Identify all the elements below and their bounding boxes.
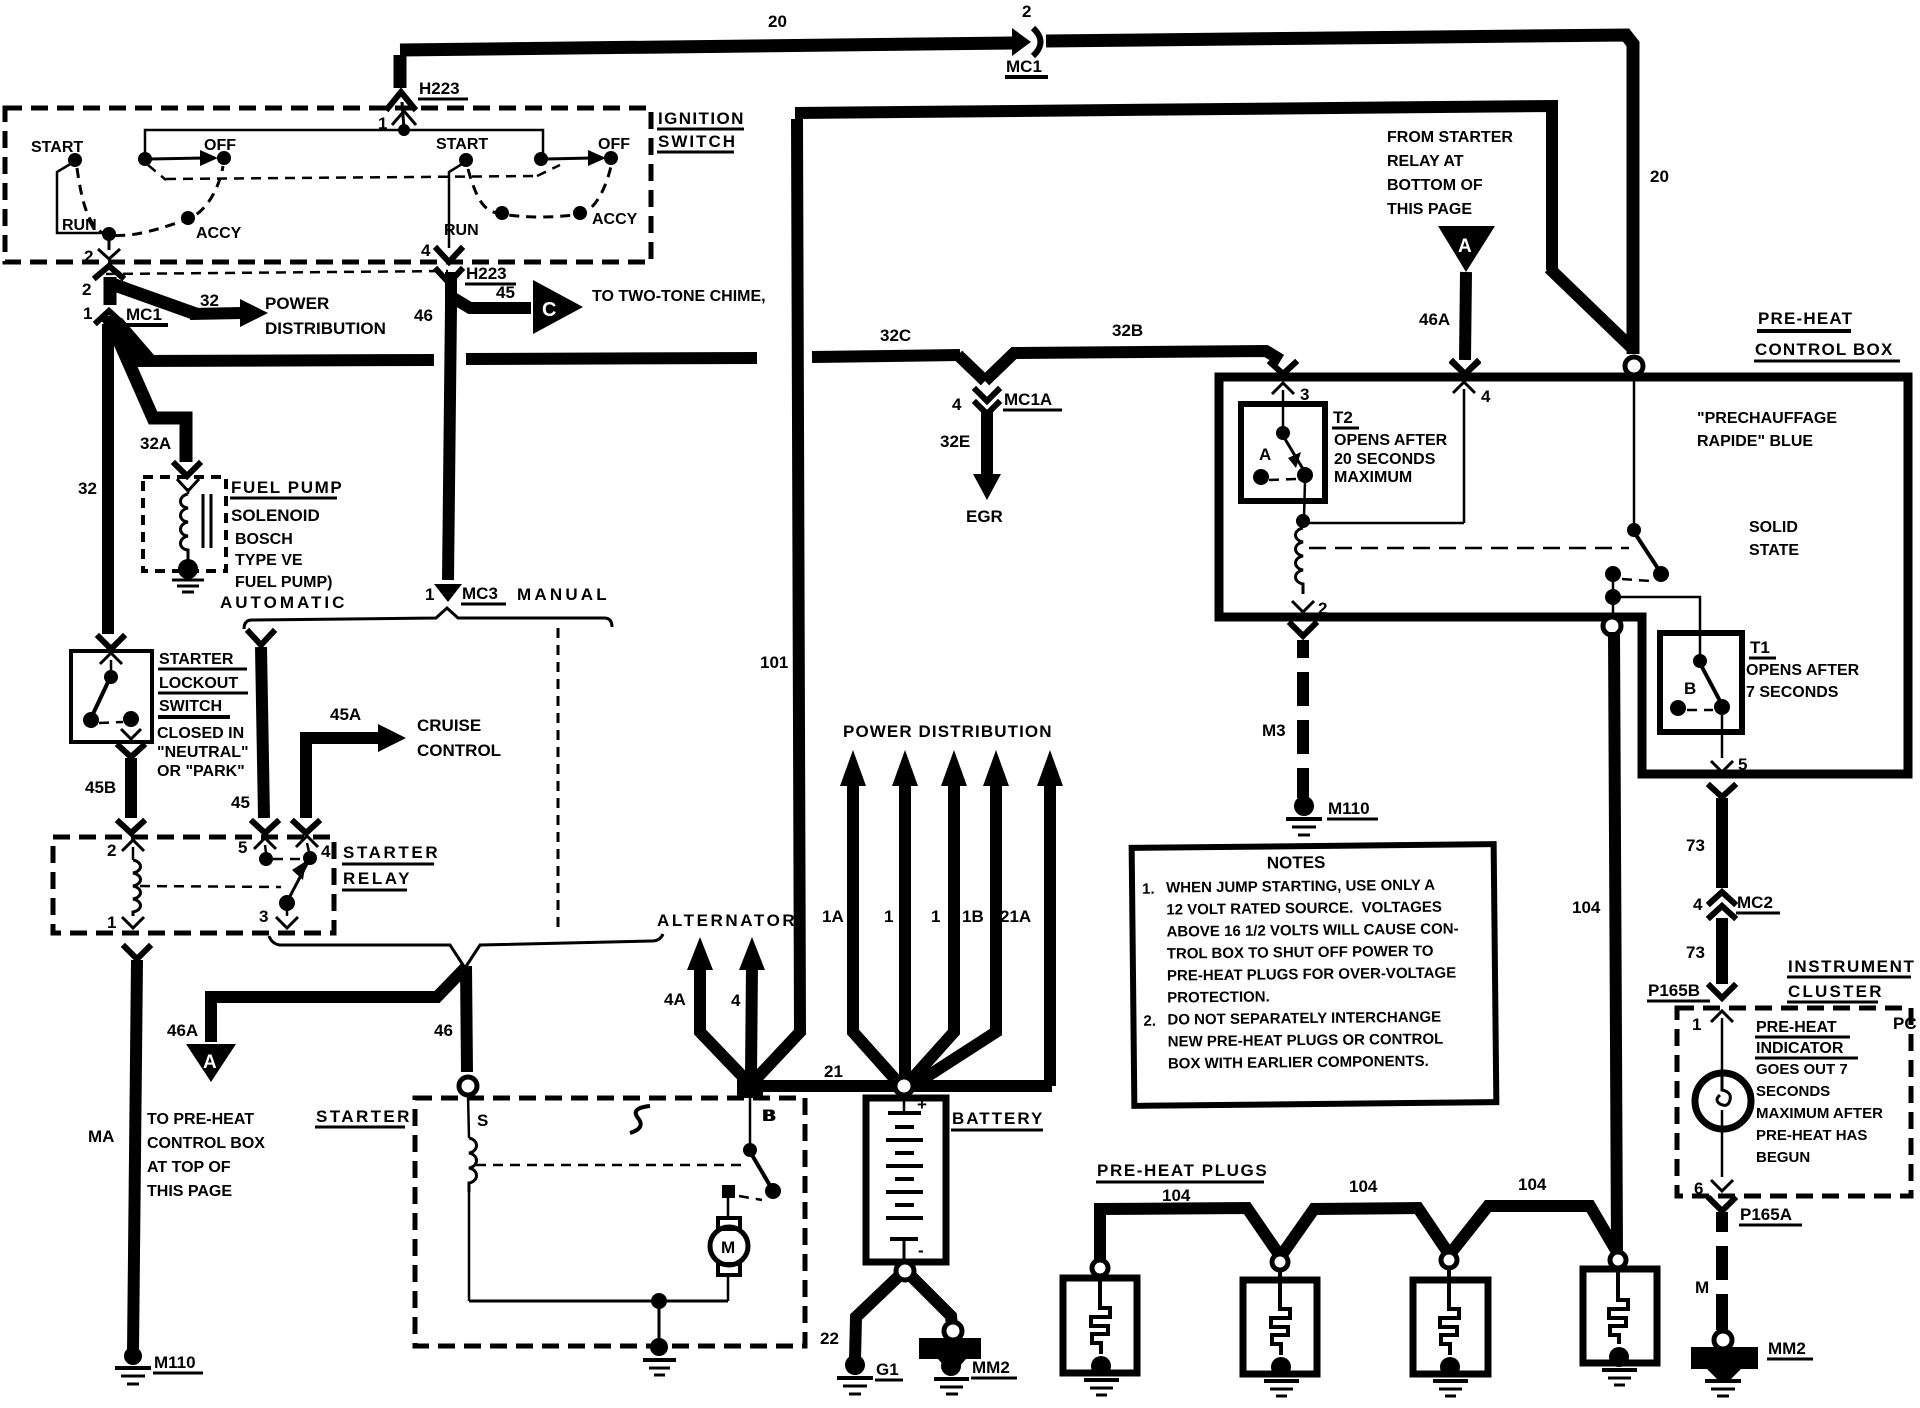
label T2 OPENS AFTER 20 SECONDS MAXIMUM: [1332, 408, 1448, 486]
label STARTER: [315, 1107, 412, 1127]
starter lockout switch box: [71, 651, 152, 742]
power distribution arrow 1 (first): [884, 750, 918, 1078]
svg-text:MA: MA: [88, 1127, 114, 1146]
svg-text:M110: M110: [154, 1353, 196, 1372]
svg-text:45: 45: [496, 283, 515, 302]
label PRE-HEAT INDICATOR: [1755, 1019, 1883, 1166]
arrow into fuel pump: [175, 464, 199, 476]
starter ground junction: [643, 1293, 676, 1375]
terminal 2 arrow (box exit): [98, 249, 120, 259]
starter internal dashed link: [476, 1164, 744, 1167]
svg-text:DISTRIBUTION: DISTRIBUTION: [265, 319, 386, 338]
battery plates: [886, 1095, 927, 1262]
wire: terminal-1 bus inside switch: [145, 130, 543, 155]
svg-text:M110: M110: [1328, 799, 1370, 818]
svg-text:MANUAL: MANUAL: [517, 585, 610, 604]
label MA: [88, 1127, 114, 1146]
svg-text:A: A: [1458, 236, 1472, 257]
svg-text:2: 2: [84, 247, 93, 266]
ignition switch left half: ACCY contact: [181, 211, 242, 242]
svg-text:BOTTOM OF: BOTTOM OF: [1387, 177, 1483, 194]
wire 73: [1686, 786, 1734, 888]
relay switch blade: [273, 859, 308, 911]
label 1 (ignition terminal 1): [378, 114, 387, 133]
svg-text:32C: 32C: [880, 326, 911, 345]
label 45A: [330, 705, 361, 724]
svg-text:ACCY: ACCY: [592, 211, 638, 228]
power distribution arrow 1 (second): [911, 750, 967, 1080]
svg-text:B: B: [1684, 679, 1696, 698]
relay T1 box: [1660, 633, 1742, 732]
svg-text:STARTER: STARTER: [316, 1107, 412, 1126]
label PRE-HEAT PLUGS: [1096, 1161, 1268, 1182]
svg-text:1A: 1A: [822, 907, 844, 926]
svg-text:32B: 32B: [1112, 321, 1143, 340]
label B (starter): [762, 1106, 774, 1125]
relay terminal 1: [107, 913, 144, 932]
svg-text:MAXIMUM AFTER: MAXIMUM AFTER: [1756, 1105, 1883, 1122]
relay terminal 5: [238, 838, 276, 866]
label 2 (ignition terminal 2): [84, 247, 93, 266]
wire 73 lower: [1686, 918, 1734, 998]
svg-text:A: A: [1259, 445, 1271, 464]
T2 output node: [1296, 481, 1464, 528]
svg-text:TYPE VE: TYPE VE: [235, 552, 303, 569]
ignition switch left half: START contact: [31, 139, 104, 233]
wire M3 dashed: [1262, 640, 1303, 798]
svg-text:22: 22: [820, 1329, 839, 1348]
label 45B: [85, 778, 116, 797]
svg-text:RELAY: RELAY: [343, 869, 412, 888]
svg-text:45: 45: [231, 793, 250, 812]
svg-text:POWER DISTRIBUTION: POWER DISTRIBUTION: [843, 722, 1053, 741]
relay dashed link: [140, 886, 281, 887]
svg-text:OFF: OFF: [598, 136, 630, 153]
svg-text:PRE-HEAT PLUGS FOR OVER-VOLTAG: PRE-HEAT PLUGS FOR OVER-VOLTAGE: [1167, 965, 1456, 985]
label POWER DISTRIBUTION (left): [265, 294, 386, 338]
svg-text:2: 2: [1318, 599, 1327, 618]
node B junction: [737, 1072, 776, 1125]
label 4 (ignition terminal 4): [421, 241, 431, 260]
svg-text:MC1: MC1: [126, 305, 162, 324]
alternator arrow 4: [731, 937, 765, 1076]
dashed connector line below ignition box: [106, 271, 448, 274]
svg-text:5: 5: [1738, 755, 1747, 774]
svg-text:SOLID: SOLID: [1749, 519, 1798, 536]
svg-text:B: B: [764, 1106, 776, 1125]
power distribution arrow 1B: [917, 750, 1009, 1083]
svg-text:104: 104: [1162, 1186, 1191, 1205]
solid state input node: [1625, 357, 1643, 537]
starter box: [415, 1098, 805, 1346]
svg-text:RUN: RUN: [444, 222, 479, 239]
pre-heat plug 1: [1063, 1260, 1137, 1395]
ground MM2 (battery): [919, 1322, 1017, 1394]
svg-text:45B: 45B: [85, 778, 116, 797]
svg-text:OPENS AFTER: OPENS AFTER: [1334, 432, 1448, 449]
104 output circle: [1603, 617, 1621, 635]
svg-text:45A: 45A: [330, 705, 361, 724]
svg-text:1: 1: [931, 907, 940, 926]
wire 46 to starter S: [466, 966, 467, 1072]
wire 20 top run: [400, 35, 1633, 354]
relay coil: [133, 860, 141, 916]
ignition switch right half: rotary dashed arc: [468, 166, 611, 217]
svg-text:TO TWO-TONE CHIME,: TO TWO-TONE CHIME,: [592, 288, 766, 305]
connector A triangle (from starter relay): [1438, 226, 1495, 272]
label S: [477, 1111, 488, 1130]
svg-text:MC2: MC2: [1737, 893, 1773, 912]
label FROM STARTER RELAY: [1387, 129, 1513, 218]
relay T2 switch A: [1253, 426, 1313, 485]
wire 46 from ignition: [448, 272, 451, 580]
svg-text:2: 2: [82, 280, 91, 299]
wire 46A into control box: [1419, 272, 1477, 374]
svg-text:DO NOT SEPARATELY INTERCHANGE: DO NOT SEPARATELY INTERCHANGE: [1167, 1009, 1441, 1029]
svg-text:2: 2: [1022, 2, 1031, 21]
svg-text:SWITCH: SWITCH: [159, 698, 222, 715]
starter switch: [722, 1097, 781, 1218]
svg-text:1: 1: [107, 913, 116, 932]
svg-text:START: START: [436, 136, 488, 153]
svg-text:OR "PARK": OR "PARK": [157, 763, 245, 780]
svg-text:BEGUN: BEGUN: [1756, 1149, 1810, 1166]
svg-text:THIS PAGE: THIS PAGE: [1387, 201, 1472, 218]
wire 45 down to relay: [249, 632, 273, 818]
svg-text:BATTERY: BATTERY: [952, 1109, 1044, 1128]
alternator arrow 4A: [664, 937, 746, 1080]
label 32C: [880, 326, 911, 345]
wire 104 from control box: [1572, 632, 1617, 1251]
relay terminal 2: [107, 840, 144, 860]
wire to T1: [1617, 597, 1700, 656]
svg-text:2: 2: [107, 841, 116, 860]
terminal S circle: [459, 1077, 477, 1095]
pre-heat plug 4: [1583, 1252, 1657, 1385]
svg-text:H223: H223: [466, 264, 507, 283]
fuel pump solenoid box: [143, 477, 226, 571]
wire 22 to G1: [820, 1276, 899, 1360]
svg-text:CLOSED IN: CLOSED IN: [157, 725, 244, 742]
connector C triangle to two-tone chime: [533, 280, 766, 334]
svg-text:5: 5: [238, 838, 247, 857]
svg-text:SECONDS: SECONDS: [1756, 1083, 1830, 1100]
svg-text:A: A: [203, 1052, 217, 1073]
label 32A: [140, 434, 171, 453]
label 32: [78, 479, 97, 498]
connector P165A: [1710, 1199, 1802, 1225]
battery top junction: [895, 1077, 913, 1095]
svg-text:20 SECONDS: 20 SECONDS: [1334, 451, 1436, 468]
svg-text:21: 21: [824, 1062, 843, 1081]
svg-text:32E: 32E: [940, 432, 970, 451]
connector MC3: [425, 584, 506, 604]
bus wire 21: [750, 1062, 1052, 1086]
arrow to cruise control: [378, 724, 406, 752]
svg-text:IGNITION: IGNITION: [658, 109, 745, 128]
svg-text:P165B: P165B: [1648, 981, 1700, 1000]
connector MC2: [1693, 892, 1780, 917]
ground M110 (M3): [1286, 796, 1378, 835]
fuel pump solenoid coil: [177, 479, 211, 562]
svg-text:MM2: MM2: [1768, 1339, 1806, 1358]
brace under starter relay: [269, 934, 663, 968]
dashed timing link T2 to switch: [1309, 547, 1629, 550]
battery bottom junction: [896, 1262, 914, 1280]
notes text: [1142, 851, 1460, 1072]
svg-text:MC3: MC3: [462, 584, 498, 603]
svg-text:S: S: [477, 1111, 488, 1130]
svg-text:SWITCH: SWITCH: [658, 132, 737, 151]
svg-text:4: 4: [321, 842, 331, 861]
label 45: [231, 793, 250, 812]
ignition switch right half: START contact: [436, 136, 488, 248]
wire 32E to EGR: [940, 412, 1003, 526]
svg-text:"PRECHAUFFAGE: "PRECHAUFFAGE: [1697, 410, 1837, 427]
svg-text:20: 20: [768, 12, 787, 31]
svg-text:20: 20: [1650, 167, 1669, 186]
svg-text:AT TOP OF: AT TOP OF: [147, 1159, 231, 1176]
svg-text:1.: 1.: [1142, 881, 1155, 898]
svg-text:P165A: P165A: [1740, 1205, 1792, 1224]
label 20 (top): [768, 12, 787, 31]
svg-text:M: M: [721, 1238, 735, 1257]
svg-text:CONTROL BOX: CONTROL BOX: [147, 1135, 265, 1152]
starter solenoid coil: [468, 1095, 477, 1301]
svg-text:C: C: [542, 299, 556, 321]
svg-text:7 SECONDS: 7 SECONDS: [1746, 684, 1839, 701]
starter lockout switch contacts: [83, 653, 141, 739]
relay T2 box: [1241, 404, 1325, 501]
svg-text:FUEL PUMP): FUEL PUMP): [235, 574, 332, 591]
label INSTRUMENT CLUSTER: [1787, 957, 1915, 1002]
svg-text:CLUSTER: CLUSTER: [1788, 982, 1884, 1001]
svg-text:4: 4: [1481, 387, 1491, 406]
svg-text:2.: 2.: [1143, 1013, 1156, 1030]
instrument cluster box: [1677, 1008, 1911, 1196]
connector MC1A: [952, 390, 1062, 414]
solid state switch: [1605, 535, 1669, 615]
svg-text:CRUISE: CRUISE: [417, 716, 481, 735]
pre-heat indicator bulb: [1695, 1073, 1751, 1130]
svg-text:12 VOLT RATED SOURCE. VOLTAGE: 12 VOLT RATED SOURCE. VOLTAGES: [1166, 899, 1442, 919]
relay terminal 3: [259, 907, 298, 928]
svg-text:NOTES: NOTES: [1267, 853, 1326, 873]
label 32B: [1112, 321, 1143, 340]
wire 45B: [119, 746, 143, 818]
ignition switch dashed crossbar: [166, 176, 537, 179]
svg-text:73: 73: [1686, 943, 1705, 962]
svg-text:FUEL PUMP: FUEL PUMP: [231, 478, 343, 497]
label ALTERNATOR: [657, 911, 797, 930]
label BATTERY: [951, 1109, 1044, 1130]
svg-text:TROL BOX TO SHUT OFF POWER TO: TROL BOX TO SHUT OFF POWER TO: [1167, 943, 1434, 963]
svg-text:ABOVE 16 1/2 VOLTS WILL CAUSE: ABOVE 16 1/2 VOLTS WILL CAUSE CON-: [1166, 920, 1458, 940]
arrow into starter lockout switch: [99, 637, 123, 649]
svg-text:RELAY AT: RELAY AT: [1387, 153, 1464, 170]
label PC: [1893, 1014, 1917, 1033]
svg-text:G1: G1: [876, 1360, 899, 1379]
svg-text:46A: 46A: [1419, 310, 1450, 329]
cluster terminal 6: [1694, 1130, 1733, 1198]
starter flexible lead symbol: [630, 1106, 650, 1133]
wire 46A to triangle: [211, 967, 466, 1042]
connector MC1 (below terminal 2): [82, 266, 168, 325]
label CRUISE CONTROL: [417, 716, 501, 760]
svg-text:BOX WITH EARLIER COMPONENTS.: BOX WITH EARLIER COMPONENTS.: [1168, 1053, 1429, 1073]
wire to MM2: [911, 1276, 952, 1326]
label FUEL PUMP SOLENOID: [230, 478, 343, 591]
ground G1: [837, 1355, 903, 1394]
svg-text:RAPIDE" BLUE: RAPIDE" BLUE: [1697, 433, 1813, 450]
wire 101 horizontal run: [754, 106, 1634, 1081]
svg-text:4: 4: [421, 241, 431, 260]
svg-text:PRE-HEAT PLUGS: PRE-HEAT PLUGS: [1097, 1161, 1268, 1180]
terminal 2 arrow: [1291, 599, 1327, 636]
svg-text:4: 4: [731, 991, 741, 1010]
wire 32 power distribution branch: [112, 284, 268, 327]
svg-text:OFF: OFF: [204, 137, 236, 154]
wire MC1 stub: [100, 316, 160, 368]
label STARTER LOCKOUT SWITCH: [157, 651, 249, 780]
svg-text:LOCKOUT: LOCKOUT: [159, 675, 238, 692]
node: terminal 1 junction: [398, 124, 410, 136]
connector MC1 (top): [1005, 28, 1048, 77]
wire 32C horizontal: [108, 326, 960, 361]
svg-text:104: 104: [1572, 898, 1601, 917]
label PRECHAUFFAGE RAPIDE BLUE: [1697, 410, 1837, 450]
label 2 (top): [1022, 2, 1031, 21]
svg-text:STARTER: STARTER: [159, 651, 234, 668]
T2 coil: [1296, 528, 1304, 594]
ignition switch left half: OFF contacts: [138, 137, 236, 180]
svg-text:GOES OUT 7: GOES OUT 7: [1756, 1061, 1848, 1078]
svg-text:+: +: [917, 1095, 927, 1114]
label STARTER RELAY: [342, 843, 440, 890]
label 46A (bottom): [167, 1021, 198, 1040]
svg-text:THIS PAGE: THIS PAGE: [147, 1183, 232, 1200]
power distribution arrow 21A: [1000, 750, 1063, 1086]
terminal 4 arrow: [1453, 363, 1491, 523]
svg-text:FROM STARTER: FROM STARTER: [1387, 129, 1513, 146]
ignition switch right half: RUN contact: [444, 206, 509, 239]
svg-text:EGR: EGR: [966, 507, 1003, 526]
arrows into starter relay: [119, 822, 318, 833]
svg-text:PRE-HEAT: PRE-HEAT: [1756, 1019, 1837, 1036]
label MANUAL: [517, 585, 610, 604]
fuel pump ground: [172, 559, 204, 592]
label 32 (power distribution): [200, 291, 219, 310]
ignition switch left half: RUN contact: [62, 217, 116, 250]
svg-text:CONTROL: CONTROL: [417, 741, 501, 760]
svg-text:3: 3: [259, 907, 268, 926]
svg-text:BOSCH: BOSCH: [235, 531, 293, 548]
label TO PRE-HEAT CONTROL BOX: [147, 1111, 265, 1200]
connector H223 (ignition feed): [388, 79, 468, 129]
svg-text:-: -: [918, 1241, 924, 1260]
svg-text:32A: 32A: [140, 434, 171, 453]
brace automatic/manual: [244, 608, 612, 629]
label 46: [414, 306, 433, 325]
svg-text:1: 1: [83, 304, 92, 323]
wire 32 vertical: [102, 324, 114, 634]
svg-text:104: 104: [1518, 1175, 1547, 1194]
starter relay box: [53, 837, 334, 933]
ignition switch right half: ACCY contact: [573, 206, 638, 228]
svg-text:AUTOMATIC: AUTOMATIC: [220, 593, 347, 612]
svg-text:CONTROL BOX: CONTROL BOX: [1755, 340, 1894, 359]
cluster terminal 1: [1692, 1011, 1733, 1072]
svg-text:32: 32: [78, 479, 97, 498]
plug harness wire 104 run 2: [1281, 1177, 1449, 1256]
pre-heat plug 2: [1243, 1254, 1317, 1396]
wire MA: [125, 947, 149, 1352]
svg-text:PRE-HEAT: PRE-HEAT: [1758, 309, 1853, 328]
label 101: [760, 653, 788, 672]
label T1 OPENS AFTER 7 SECONDS: [1746, 638, 1860, 701]
pre-heat control box outline: [1219, 377, 1908, 774]
ground M110 (left): [115, 1347, 203, 1384]
svg-text:1B: 1B: [962, 907, 984, 926]
starter motor M: [710, 1218, 748, 1301]
svg-text:104: 104: [1349, 1177, 1378, 1196]
notes box: [1132, 844, 1497, 1106]
label 46 (starter): [434, 1021, 453, 1040]
svg-text:46: 46: [414, 306, 433, 325]
ignition switch left half: rotary dashed arc: [77, 166, 223, 236]
connector P165B: [1647, 981, 1710, 1001]
svg-text:NEW PRE-HEAT PLUGS OR CONTROL: NEW PRE-HEAT PLUGS OR CONTROL: [1168, 1031, 1444, 1051]
wire M dashed: [1695, 1212, 1722, 1330]
label IGNITION SWITCH: [657, 109, 745, 152]
svg-text:T1: T1: [1750, 638, 1770, 657]
svg-text:WHEN JUMP STARTING, USE ONLY A: WHEN JUMP STARTING, USE ONLY A: [1166, 877, 1435, 897]
svg-text:6: 6: [1694, 1179, 1703, 1198]
terminal 4 arrow (box exit): [437, 249, 461, 262]
wire 32A branch: [112, 325, 186, 462]
svg-text:OPENS AFTER: OPENS AFTER: [1746, 662, 1860, 679]
svg-text:INSTRUMENT: INSTRUMENT: [1788, 957, 1915, 976]
svg-text:M: M: [1695, 1278, 1709, 1297]
starter return wire: [469, 1300, 728, 1303]
battery box: [866, 1098, 946, 1262]
terminal 1 arrow: [392, 111, 416, 125]
terminal 5 arrow: [1711, 715, 1747, 774]
svg-text:MC1: MC1: [1006, 57, 1042, 76]
power distribution arrow 1A: [822, 750, 895, 1079]
svg-text:PC: PC: [1893, 1014, 1917, 1033]
svg-text:"NEUTRAL": "NEUTRAL": [157, 744, 249, 761]
svg-text:1: 1: [425, 585, 434, 604]
svg-text:21A: 21A: [1000, 907, 1031, 926]
svg-text:PROTECTION.: PROTECTION.: [1167, 988, 1270, 1006]
svg-text:MM2: MM2: [972, 1358, 1010, 1377]
label POWER DISTRIBUTION (bottom): [843, 722, 1053, 741]
dashed section divider: [557, 628, 560, 933]
svg-text:1: 1: [884, 907, 893, 926]
svg-text:INDICATOR: INDICATOR: [1756, 1040, 1844, 1057]
connector A triangle (to pre-heat box): [186, 1044, 236, 1082]
label PRE-HEAT CONTROL BOX: [1754, 309, 1900, 361]
svg-text:MAXIMUM: MAXIMUM: [1334, 469, 1412, 486]
wire 45A cruise branch: [306, 738, 382, 818]
svg-text:T2: T2: [1333, 408, 1353, 427]
svg-text:POWER: POWER: [265, 294, 329, 313]
svg-text:M3: M3: [1262, 721, 1286, 740]
svg-text:46A: 46A: [167, 1021, 198, 1040]
svg-text:SOLENOID: SOLENOID: [231, 506, 320, 525]
label 20 (right vertical): [1650, 167, 1669, 186]
